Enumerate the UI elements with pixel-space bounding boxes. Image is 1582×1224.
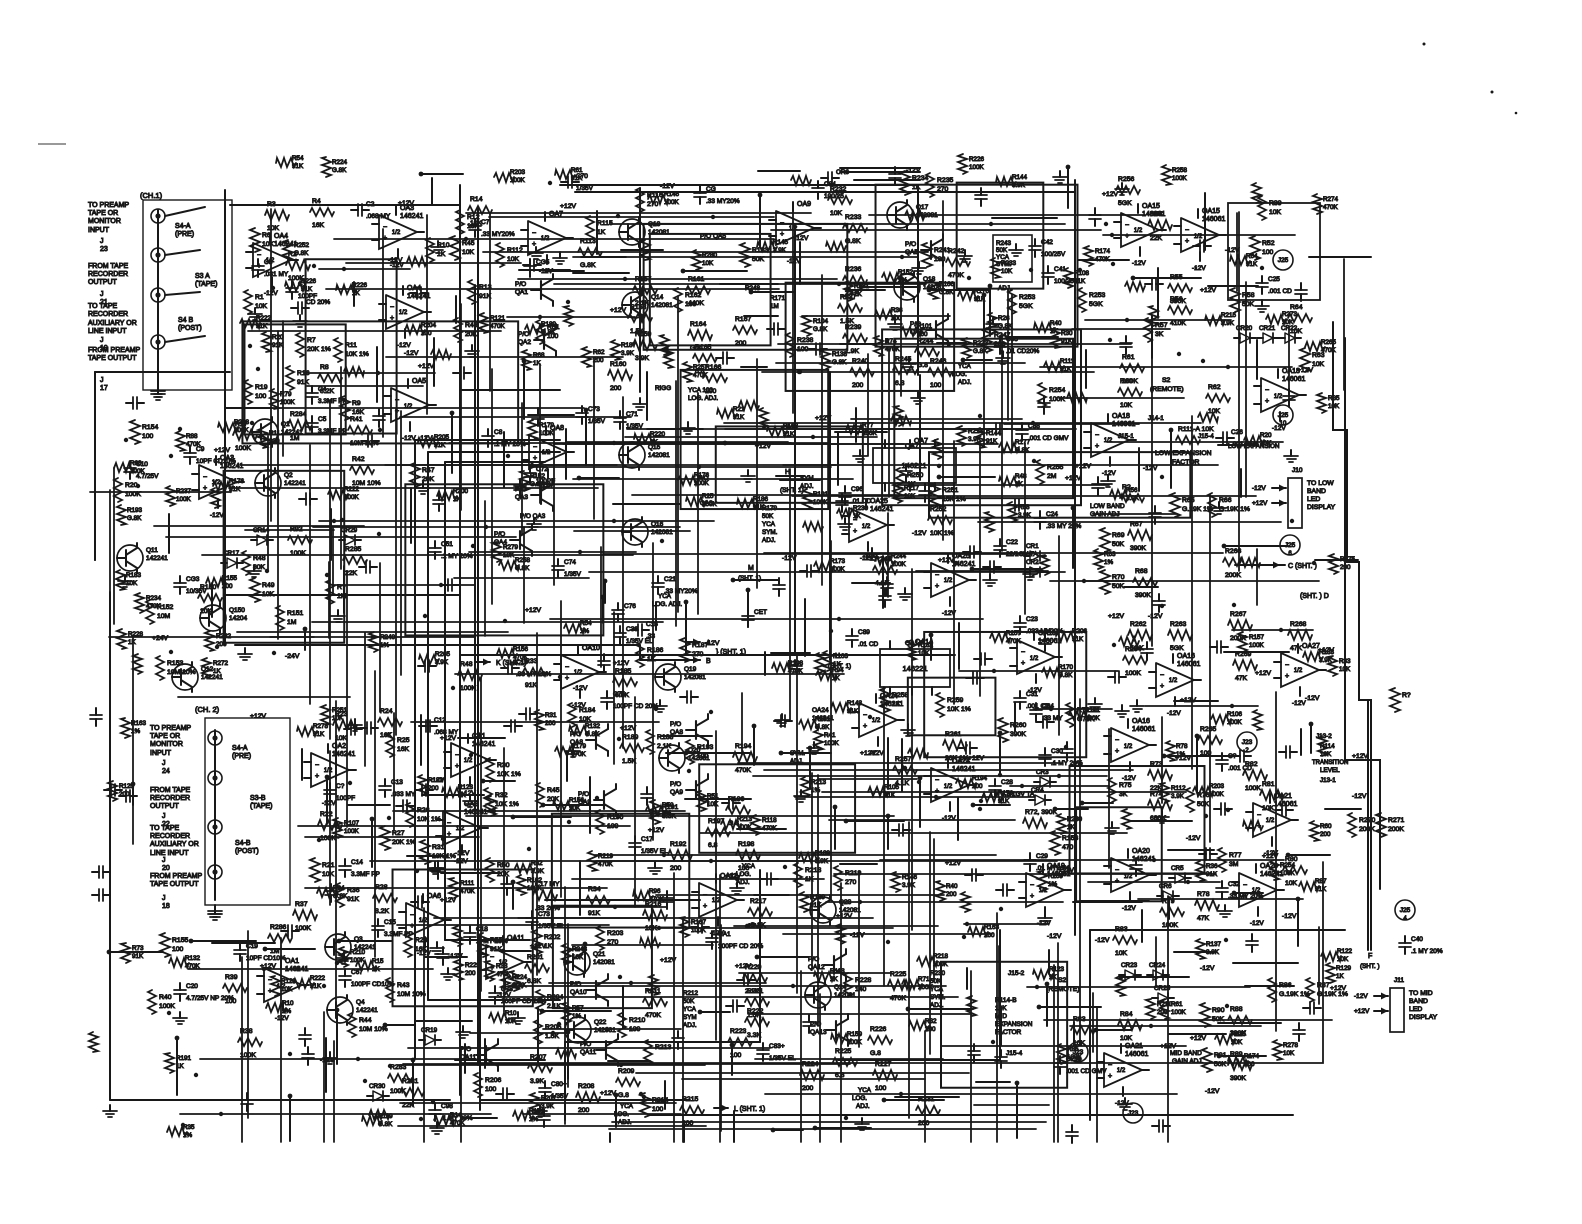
- svg-text:+: +: [1185, 238, 1189, 245]
- svg-text:P/O: P/O: [905, 241, 916, 248]
- svg-text:CR17: CR17: [223, 550, 240, 557]
- svg-text:91K: 91K: [525, 682, 538, 689]
- svg-text:.33 MY20%: .33 MY20%: [481, 231, 515, 238]
- svg-text:1/2: 1/2: [944, 784, 953, 790]
- svg-text:91K: 91K: [588, 910, 601, 917]
- svg-text:R78: R78: [1197, 891, 1210, 898]
- svg-text:−: −: [1095, 432, 1099, 439]
- svg-text:R90: R90: [1212, 1007, 1225, 1014]
- svg-text:R20: R20: [1260, 432, 1272, 439]
- svg-text:J15-2: J15-2: [1008, 970, 1025, 977]
- svg-text:R234: R234: [146, 595, 162, 602]
- svg-text:10K: 10K: [462, 249, 475, 256]
- svg-text:47K: 47K: [1290, 645, 1303, 652]
- svg-text:+: +: [565, 675, 569, 682]
- svg-text:C21: C21: [664, 576, 676, 583]
- svg-text:R129: R129: [1336, 965, 1352, 972]
- svg-text:100/25V: 100/25V: [1041, 251, 1066, 258]
- svg-text:P/O: P/O: [570, 981, 581, 988]
- svg-text:10K 1%: 10K 1%: [417, 816, 441, 823]
- svg-text:1/2: 1/2: [1294, 668, 1303, 674]
- svg-text:470K: 470K: [1095, 256, 1111, 263]
- svg-text:1/2: 1/2: [1104, 438, 1113, 444]
- svg-text:142241: 142241: [356, 1007, 378, 1014]
- svg-text:R217: R217: [750, 898, 766, 905]
- svg-text:100K: 100K: [159, 1003, 175, 1010]
- svg-text:J15-4: J15-4: [1198, 433, 1214, 440]
- svg-text:R157: R157: [1249, 634, 1265, 641]
- svg-text:QA1: QA1: [515, 289, 528, 296]
- svg-text:100PF CD 20%: 100PF CD 20%: [501, 998, 546, 1005]
- svg-text:R68: R68: [1135, 568, 1148, 575]
- svg-text:3.9K: 3.9K: [435, 659, 449, 666]
- svg-text:YCA: YCA: [958, 363, 972, 370]
- svg-text:91K: 91K: [1246, 261, 1258, 268]
- svg-text:470K: 470K: [1323, 204, 1339, 211]
- svg-text:2M: 2M: [1047, 473, 1057, 480]
- svg-text:YCA: YCA: [742, 863, 756, 870]
- svg-text:QA2: QA2: [518, 339, 531, 346]
- svg-text:R198: R198: [738, 841, 754, 848]
- svg-text:+12V: +12V: [1352, 753, 1369, 760]
- svg-text:100/25: 100/25: [824, 193, 844, 200]
- svg-text:R176: R176: [998, 790, 1014, 797]
- svg-text:R9: R9: [352, 400, 361, 407]
- svg-text:-12V: -12V: [1200, 965, 1215, 972]
- svg-text:R218: R218: [933, 953, 949, 960]
- svg-text:R56: R56: [1126, 487, 1138, 494]
- svg-text:100: 100: [1262, 249, 1274, 256]
- svg-text:G.8K: G.8K: [294, 250, 309, 257]
- svg-text:R229: R229: [465, 962, 481, 969]
- svg-text:L (SHT. 1): L (SHT. 1): [734, 1106, 765, 1113]
- svg-text:R192: R192: [670, 841, 686, 848]
- svg-text:CG3: CG3: [186, 576, 200, 583]
- svg-text:-12V: -12V: [573, 685, 588, 692]
- svg-text:YCA: YCA: [620, 1103, 634, 1110]
- svg-text:1K: 1K: [853, 513, 862, 520]
- svg-text:50K: 50K: [1197, 801, 1210, 808]
- svg-text:10M 10%: 10M 10%: [359, 1026, 388, 1033]
- svg-text:C89: C89: [858, 629, 870, 636]
- svg-text:1K: 1K: [830, 976, 839, 983]
- svg-text:200K: 200K: [1359, 826, 1375, 833]
- svg-text:C36: C36: [626, 626, 638, 633]
- svg-text:(REMOTE): (REMOTE): [1150, 386, 1184, 393]
- svg-text:142081: 142081: [593, 959, 615, 966]
- svg-text:1%: 1%: [1104, 559, 1114, 566]
- svg-text:SYM.: SYM.: [762, 529, 778, 536]
- svg-text:3.9K: 3.9K: [635, 355, 649, 362]
- svg-text:100K: 100K: [1085, 715, 1101, 722]
- svg-text:16K: 16K: [352, 409, 365, 416]
- svg-text:R156: R156: [569, 797, 585, 804]
- svg-text:Q2: Q2: [284, 472, 293, 479]
- svg-text:10K: 10K: [281, 986, 293, 993]
- svg-text:1%: 1%: [529, 1116, 539, 1123]
- svg-text:100PF CD10%: 100PF CD10%: [351, 981, 395, 988]
- svg-text:1/2: 1/2: [862, 524, 871, 530]
- svg-text:B: B: [706, 658, 711, 665]
- svg-text:R189: R189: [541, 321, 557, 328]
- svg-text:R263: R263: [1170, 621, 1186, 628]
- svg-text:R25: R25: [702, 493, 714, 500]
- svg-text:470K: 470K: [890, 995, 906, 1002]
- svg-text:1K: 1K: [352, 290, 361, 297]
- svg-text:100K: 100K: [737, 824, 753, 831]
- svg-text:QA11: QA11: [460, 1054, 477, 1061]
- svg-text:R278: R278: [1283, 1042, 1299, 1049]
- svg-text:10K: 10K: [262, 241, 275, 248]
- svg-text:R212: R212: [683, 990, 699, 997]
- svg-text:100K: 100K: [918, 984, 934, 991]
- svg-text:5GK: 5GK: [1089, 301, 1103, 308]
- svg-text:R21: R21: [733, 406, 745, 413]
- svg-text:-12V: -12V: [794, 235, 809, 242]
- svg-text:P/O: P/O: [515, 281, 526, 288]
- svg-text:Q22: Q22: [594, 1019, 607, 1026]
- svg-text:R24: R24: [380, 708, 393, 715]
- svg-text:BAND: BAND: [1409, 998, 1428, 1005]
- svg-text:100K: 100K: [539, 430, 555, 437]
- svg-text:+: +: [1265, 398, 1269, 405]
- svg-text:91K: 91K: [347, 896, 360, 903]
- svg-text:C74: C74: [564, 559, 576, 566]
- svg-text:R189: R189: [622, 734, 638, 741]
- svg-text:10K: 10K: [1328, 403, 1340, 410]
- svg-text:470K: 470K: [460, 888, 476, 895]
- svg-text:R258: R258: [515, 557, 531, 564]
- svg-text:−: −: [1265, 387, 1269, 394]
- svg-text:R112: R112: [1171, 785, 1186, 792]
- svg-text:R183: R183: [126, 572, 142, 579]
- svg-text:.01 CD: .01 CD: [858, 641, 879, 648]
- svg-text:R54: R54: [580, 620, 592, 627]
- svg-text:−: −: [490, 954, 494, 961]
- svg-text:1K: 1K: [213, 668, 222, 675]
- svg-text:100K: 100K: [130, 468, 146, 475]
- svg-text:470K: 470K: [735, 767, 751, 774]
- svg-text:3.9K: 3.9K: [621, 350, 635, 357]
- svg-text:CR6: CR6: [836, 169, 849, 176]
- svg-text:C31: C31: [1026, 691, 1038, 698]
- svg-text:R193: R193: [697, 744, 713, 751]
- svg-text:10PF CD10%: 10PF CD10%: [246, 955, 286, 962]
- svg-text:R184: R184: [579, 707, 595, 714]
- svg-text:4.7/25V NP 20%: 4.7/25V NP 20%: [186, 995, 234, 1002]
- svg-text:R226: R226: [870, 1026, 886, 1033]
- svg-text:8.2K: 8.2K: [375, 908, 389, 915]
- svg-text:200: 200: [918, 1120, 930, 1127]
- svg-text:100K: 100K: [862, 430, 878, 437]
- svg-text:100K: 100K: [1249, 642, 1265, 649]
- svg-text:-12V: -12V: [1122, 905, 1136, 912]
- svg-text:LINE INPUT: LINE INPUT: [150, 850, 189, 857]
- svg-text:+12V: +12V: [648, 827, 665, 834]
- svg-text:YCA: YCA: [762, 521, 776, 528]
- svg-text:+: +: [1115, 748, 1119, 755]
- svg-text:142081: 142081: [651, 302, 673, 309]
- svg-text:R190: R190: [607, 814, 623, 821]
- svg-text:100: 100: [255, 393, 267, 400]
- svg-text:R286: R286: [270, 924, 286, 931]
- svg-text:R12: R12: [467, 214, 480, 221]
- svg-text:R254: R254: [1049, 387, 1065, 394]
- svg-text:G.8K: G.8K: [127, 515, 142, 522]
- svg-text:+: +: [1030, 893, 1034, 900]
- svg-text:R215: R215: [1221, 312, 1237, 319]
- svg-text:R238: R238: [797, 337, 813, 344]
- svg-text:R?: R?: [1402, 692, 1411, 699]
- svg-text:10K: 10K: [1001, 268, 1013, 275]
- svg-text:R251: R251: [942, 487, 958, 494]
- svg-text:R151: R151: [287, 610, 303, 617]
- svg-text:+: +: [1285, 673, 1289, 680]
- svg-text:-12V: -12V: [850, 932, 865, 939]
- svg-text:R167: R167: [691, 919, 707, 926]
- svg-text:R194: R194: [735, 743, 751, 750]
- svg-text:+: +: [703, 903, 707, 910]
- svg-text:TAPE OUTPUT: TAPE OUTPUT: [150, 881, 199, 888]
- svg-text:23: 23: [100, 246, 108, 253]
- svg-text:R70: R70: [1112, 574, 1125, 581]
- svg-text:OA6: OA6: [427, 893, 441, 900]
- svg-text:M: M: [748, 565, 754, 572]
- svg-text:R83: R83: [1115, 926, 1128, 933]
- svg-text:R72, 390K: R72, 390K: [1025, 809, 1058, 816]
- svg-text:100K: 100K: [290, 550, 306, 557]
- svg-text:R156: R156: [513, 646, 529, 653]
- svg-text:OUTPUT: OUTPUT: [88, 279, 118, 286]
- svg-text:270: 270: [937, 186, 949, 193]
- svg-text:J25: J25: [1278, 257, 1289, 264]
- svg-text:R260: R260: [1010, 722, 1026, 729]
- svg-text:R32: R32: [925, 1018, 937, 1025]
- svg-text:200K: 200K: [1388, 826, 1404, 833]
- svg-text:10K: 10K: [702, 260, 714, 267]
- svg-text:R252: R252: [294, 242, 310, 249]
- svg-text:J25: J25: [1400, 907, 1411, 914]
- svg-text:S4-B: S4-B: [235, 840, 251, 847]
- svg-text:100: 100: [697, 753, 709, 760]
- svg-text:+12V: +12V: [1252, 500, 1268, 507]
- svg-text:P/O QA3: P/O QA3: [520, 513, 546, 520]
- svg-text:16K: 16K: [397, 746, 410, 753]
- svg-text:P/O: P/O: [670, 781, 681, 788]
- svg-text:470K: 470K: [490, 323, 506, 330]
- svg-text:R144: R144: [1012, 174, 1028, 181]
- svg-text:50K: 50K: [762, 513, 774, 520]
- svg-text:R271: R271: [1388, 817, 1404, 824]
- svg-text:R46: R46: [465, 322, 478, 329]
- svg-text:91K: 91K: [313, 731, 325, 738]
- svg-text:MONITOR: MONITOR: [150, 741, 183, 748]
- svg-text:100K: 100K: [320, 835, 336, 842]
- svg-text:100K: 100K: [344, 494, 360, 501]
- svg-text:G.19K 1%: G.19K 1%: [1317, 991, 1348, 998]
- svg-text:J13-1: J13-1: [1320, 777, 1336, 784]
- svg-text:ADJ.: ADJ.: [856, 1103, 870, 1110]
- svg-text:.33 MY: .33 MY: [1042, 715, 1063, 722]
- svg-text:R201: R201: [541, 1095, 557, 1102]
- svg-text:200: 200: [1320, 831, 1331, 838]
- svg-text:47K: 47K: [1235, 675, 1248, 682]
- svg-text:R68: R68: [533, 352, 545, 359]
- svg-text:−: −: [1243, 882, 1247, 889]
- svg-text:10: 10: [1280, 421, 1287, 427]
- svg-text:-12V: -12V: [1122, 775, 1136, 782]
- svg-text:1/35V: 1/35V: [564, 571, 582, 578]
- svg-text:410K: 410K: [1170, 320, 1186, 327]
- svg-text:R96: R96: [649, 888, 661, 895]
- svg-text:LED: LED: [1307, 496, 1320, 503]
- svg-text:R182: R182: [428, 777, 444, 784]
- svg-text:−: −: [1108, 1062, 1112, 1069]
- svg-text:MID BAND: MID BAND: [1170, 1050, 1202, 1057]
- svg-text:TO TAPE: TO TAPE: [88, 303, 118, 310]
- svg-text:R33: R33: [496, 963, 508, 970]
- svg-text:390K: 390K: [1230, 1075, 1246, 1082]
- svg-text:100K: 100K: [344, 828, 360, 835]
- svg-text:R193: R193: [127, 507, 143, 514]
- svg-text:1M: 1M: [290, 435, 300, 442]
- svg-text:146241: 146241: [400, 213, 423, 220]
- svg-text:G.8K: G.8K: [378, 1121, 393, 1128]
- svg-text:R69: R69: [1112, 532, 1125, 539]
- svg-text:50K: 50K: [996, 247, 1008, 254]
- svg-text:R31: R31: [432, 844, 445, 851]
- svg-text:1%: 1%: [1176, 751, 1186, 758]
- svg-text:R191: R191: [176, 1055, 192, 1062]
- svg-text:R235: R235: [937, 177, 953, 184]
- svg-text:-12V: -12V: [1282, 913, 1297, 920]
- svg-text:C83+: C83+: [769, 1043, 785, 1050]
- svg-text:C7: C7: [481, 219, 490, 226]
- svg-text:R111: R111: [460, 880, 475, 887]
- svg-text:(PRE): (PRE): [175, 231, 194, 238]
- svg-text:OUTPUT: OUTPUT: [150, 803, 180, 810]
- svg-text:3.3MF PP: 3.3MF PP: [384, 931, 413, 938]
- svg-text:J15-4: J15-4: [1006, 1050, 1023, 1057]
- svg-text:10K: 10K: [507, 256, 520, 263]
- svg-text:R30: R30: [1061, 330, 1073, 337]
- svg-text:R272: R272: [213, 660, 229, 667]
- svg-text:+: +: [410, 923, 414, 930]
- svg-text:R154: R154: [142, 424, 158, 431]
- svg-text:50K: 50K: [1214, 1061, 1227, 1068]
- svg-text:R39: R39: [225, 974, 238, 981]
- svg-text:R85: R85: [1067, 1046, 1079, 1053]
- svg-text:.33 MY20%: .33 MY20%: [706, 198, 740, 205]
- svg-text:50K: 50K: [1242, 301, 1255, 308]
- svg-text:142081: 142081: [684, 674, 706, 681]
- svg-text:R61: R61: [571, 167, 583, 174]
- svg-text:+12V: +12V: [560, 203, 577, 210]
- svg-text:R274: R274: [1323, 196, 1339, 203]
- svg-text:100K: 100K: [664, 199, 680, 206]
- svg-text:+: +: [1108, 1073, 1112, 1080]
- svg-text:F: F: [1368, 953, 1372, 960]
- svg-text:QA13: QA13: [810, 1029, 827, 1036]
- svg-text:C20: C20: [186, 983, 198, 990]
- svg-text:OA1: OA1: [285, 958, 299, 965]
- svg-text:R233: R233: [845, 214, 861, 221]
- svg-text:R153: R153: [167, 660, 183, 667]
- svg-text:+12V: +12V: [250, 713, 267, 720]
- svg-text:YCA: YCA: [858, 1087, 872, 1094]
- svg-text:200: 200: [119, 791, 130, 798]
- svg-text:FROM TAPE: FROM TAPE: [88, 263, 129, 270]
- svg-text:-12V: -12V: [912, 530, 927, 537]
- svg-text:10K 1%: 10K 1%: [947, 706, 971, 713]
- svg-text:200: 200: [802, 1085, 814, 1092]
- svg-text:C73: C73: [538, 911, 550, 918]
- svg-text:Q21: Q21: [593, 951, 606, 958]
- svg-text:-12V: -12V: [1143, 465, 1158, 472]
- svg-text:-12V: -12V: [1352, 793, 1367, 800]
- svg-text:1/2: 1/2: [404, 404, 413, 410]
- svg-text:OA10: OA10: [582, 645, 600, 652]
- svg-text:+12V: +12V: [214, 447, 231, 454]
- svg-text:CR2: CR2: [1026, 559, 1039, 566]
- svg-text:(SHT. ) D: (SHT. ) D: [1300, 593, 1329, 600]
- svg-text:C84: C84: [824, 181, 836, 188]
- svg-text:QA9: QA9: [670, 789, 683, 796]
- svg-text:OA15: OA15: [1142, 203, 1160, 210]
- svg-text:+12V: +12V: [525, 607, 542, 614]
- svg-text:LEVEL: LEVEL: [1320, 767, 1340, 774]
- svg-text:10K: 10K: [332, 715, 344, 722]
- svg-text:1K: 1K: [458, 792, 467, 799]
- svg-text:3.9K: 3.9K: [1171, 793, 1185, 800]
- svg-text:10K 1%: 10K 1%: [495, 801, 519, 808]
- svg-text:−: −: [1185, 227, 1189, 234]
- svg-text:16K: 16K: [312, 222, 325, 229]
- svg-text:YCA: YCA: [683, 1006, 697, 1013]
- svg-text:−: −: [1021, 649, 1025, 656]
- svg-text:140: 140: [855, 986, 867, 993]
- svg-text:10M: 10M: [157, 613, 171, 620]
- svg-text:R273: R273: [1282, 311, 1298, 318]
- svg-text:R54: R54: [1150, 211, 1163, 218]
- svg-text:50K: 50K: [1112, 541, 1125, 548]
- svg-text:R3: R3: [267, 201, 276, 208]
- svg-text:R11: R11: [345, 342, 357, 349]
- svg-text:20K 1%: 20K 1%: [392, 839, 416, 846]
- svg-text:20: 20: [162, 865, 170, 872]
- svg-text:R224: R224: [332, 159, 348, 166]
- svg-text:−: −: [390, 304, 394, 311]
- svg-text:390K: 390K: [1130, 545, 1146, 552]
- svg-text:OA4: OA4: [274, 233, 288, 240]
- svg-text:R29: R29: [415, 937, 428, 944]
- svg-text:R223: R223: [730, 1028, 746, 1035]
- svg-text:(CH.1): (CH.1): [140, 191, 163, 200]
- svg-text:R253: R253: [1019, 294, 1035, 301]
- svg-text:100K: 100K: [235, 445, 251, 452]
- svg-text:142081: 142081: [651, 529, 673, 536]
- svg-text:+24V: +24V: [152, 635, 169, 642]
- svg-text:R285: R285: [345, 546, 361, 553]
- svg-text:R281: R281: [402, 1078, 418, 1085]
- svg-text:C98: C98: [441, 1103, 453, 1110]
- svg-text:R177: R177: [1015, 439, 1031, 446]
- svg-text:R34: R34: [588, 886, 601, 893]
- svg-text:100K: 100K: [1227, 719, 1243, 726]
- svg-text:R176: R176: [694, 472, 710, 479]
- svg-text:R162: R162: [527, 877, 543, 884]
- svg-text:1K: 1K: [597, 229, 606, 236]
